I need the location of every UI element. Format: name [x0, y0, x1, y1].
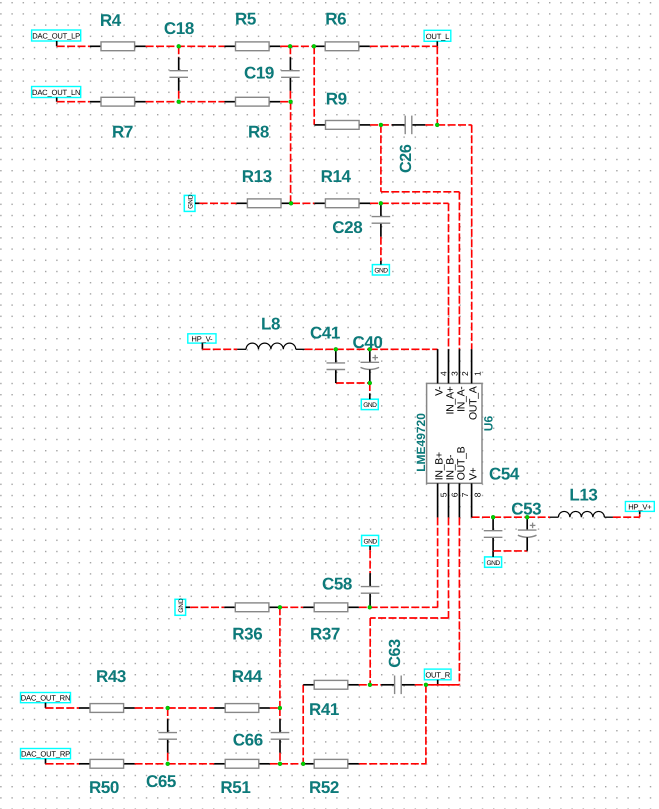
svg-text:U6: U6	[481, 416, 495, 432]
junction node C63/OUT_R	[424, 683, 428, 687]
capacitor C63	[381, 676, 415, 695]
net label OUT_R	[424, 669, 451, 680]
label R14	[321, 167, 352, 186]
svg-text:R9: R9	[326, 90, 347, 109]
svg-text:OUT_L: OUT_L	[426, 32, 449, 41]
resistor R36	[224, 603, 280, 612]
svg-text:OUT_B: OUT_B	[455, 446, 467, 480]
wire R41 to C63 node	[359, 684, 370, 686]
svg-text:LME49720: LME49720	[414, 413, 428, 472]
junction node R8/C19	[289, 100, 293, 104]
wire stub HP_V-	[201, 343, 203, 349]
wire OUT_L riser to C26	[436, 46, 438, 125]
label R52	[309, 778, 339, 797]
wire OUT_R node riser to R52	[425, 685, 427, 764]
wire C63 left stub	[370, 684, 381, 686]
wire R50 to C65 node	[135, 763, 168, 765]
wire C66 node to R52	[280, 763, 303, 765]
junction node R14/C28 (IN_A+)	[379, 201, 383, 205]
wire DAC_OUT_RN to R43	[46, 707, 80, 709]
junction node C40/HP_V- rail	[368, 347, 372, 351]
net label DAC_OUT_RN	[21, 693, 71, 703]
op-amp U6 value LME49720	[414, 413, 428, 472]
svg-text:R50: R50	[89, 778, 119, 797]
resistor R13	[236, 199, 292, 208]
wire DAC_OUT_LN to R7	[57, 101, 90, 103]
wire HP_V- to L8	[202, 348, 237, 350]
svg-text:GND: GND	[374, 268, 388, 275]
wire R9 left riser	[313, 46, 315, 125]
svg-text:R5: R5	[235, 10, 256, 29]
resistor R51	[214, 759, 270, 768]
op-amp U6 pin 2 (IN_A-)	[455, 349, 470, 412]
svg-text:L13: L13	[569, 486, 597, 505]
svg-text:8: 8	[472, 492, 482, 497]
wire stub GND C28	[380, 261, 382, 265]
wire R8 to C19 node	[280, 101, 290, 103]
resistor R9	[315, 121, 371, 130]
op-amp U6 reference	[481, 416, 495, 432]
wire C63 right stub	[415, 684, 426, 686]
wire L8 to C41 node	[305, 348, 336, 350]
label R13	[242, 167, 272, 186]
svg-text:GND: GND	[178, 598, 185, 613]
svg-text:HP_V+: HP_V+	[628, 502, 652, 511]
svg-text:C26: C26	[397, 144, 415, 173]
wire stub DAC_OUT_RP	[45, 759, 47, 764]
wire C28 lower stub	[380, 237, 382, 261]
resistor R14	[314, 199, 370, 208]
svg-text:R4: R4	[100, 11, 122, 30]
wire C54 node to C53 node	[493, 516, 527, 518]
wire R36 node to R37	[280, 606, 303, 608]
label R8	[248, 123, 269, 142]
svg-text:DAC_OUT_LN: DAC_OUT_LN	[32, 88, 80, 97]
op-amp U6 pin 5 (IN_B+)	[434, 452, 449, 517]
junction node R7/C18	[177, 100, 181, 104]
resistor R43	[79, 704, 135, 713]
wire stub DAC_OUT_LN	[56, 98, 58, 102]
junction node C26/OUT_L	[435, 123, 439, 127]
svg-text:C53: C53	[511, 500, 541, 519]
wire R7 to R8 via node C18b	[146, 101, 225, 103]
capacitor C18	[169, 57, 188, 91]
wire GND to R13	[200, 202, 237, 204]
svg-text:C41: C41	[310, 324, 340, 343]
junction node R6/R9	[312, 44, 316, 48]
wire R13 node to R14	[292, 202, 314, 204]
junction node R37/C58 (IN_B+)	[368, 605, 372, 609]
capacitor C41	[327, 349, 346, 383]
wire C18 top stub	[178, 46, 180, 57]
wire stub GND C54	[492, 551, 494, 557]
label R51	[220, 778, 250, 797]
capacitor C28	[372, 203, 391, 237]
svg-text:R41: R41	[309, 700, 339, 719]
label C65	[146, 772, 176, 791]
power label GND (C54)	[485, 557, 502, 567]
wire R43 to C65 node	[135, 707, 168, 709]
op-amp U6 pin 4 (V-)	[434, 349, 449, 396]
wire C54 to C53 ground link	[493, 550, 527, 552]
inductor L13	[550, 511, 613, 517]
junction node R41/C63 (IN_B-)	[368, 683, 372, 687]
label R37	[310, 625, 340, 644]
wire IN_A- path C26 node to U6 pin 2	[381, 125, 460, 349]
wire R8 node riser to R13/R14 node	[290, 102, 292, 204]
junction node V+/C54	[491, 515, 495, 519]
wire R44 to C66 node	[270, 707, 280, 709]
label R4	[100, 11, 122, 30]
wire C40 node to U6 pin 4	[370, 348, 438, 350]
junction node R51/C66	[278, 762, 282, 766]
net label OUT_L	[424, 30, 451, 41]
wire stub GND row R13	[195, 202, 200, 204]
wire C58 node to U6 pin 5 riser	[370, 606, 438, 608]
label C40	[353, 333, 383, 352]
junction node C54/C53	[525, 515, 529, 519]
power label GND (row R36)	[175, 598, 186, 615]
op-amp U6 pin 8 (V+)	[468, 467, 483, 517]
junction node R9/C26 (IN_A-)	[379, 123, 383, 127]
label C63	[386, 639, 404, 668]
wire C18 bottom stub	[178, 91, 180, 102]
svg-text:GND: GND	[187, 194, 194, 209]
wire OUT_A riser to U6 pin 1	[471, 125, 473, 349]
resistor R6	[314, 42, 370, 51]
net label HP_V-	[188, 334, 216, 344]
svg-text:GND: GND	[363, 402, 377, 409]
label C19	[244, 64, 274, 83]
svg-text:OUT_R: OUT_R	[425, 670, 450, 679]
wire C66 bottom stub	[279, 753, 281, 764]
svg-text:R43: R43	[96, 667, 126, 686]
capacitor C66	[271, 719, 290, 753]
wire stub GND C40	[369, 393, 371, 399]
svg-text:R51: R51	[220, 778, 250, 797]
wire L13 to HP_V+	[613, 514, 640, 517]
svg-text:DAC_OUT_RN: DAC_OUT_RN	[21, 694, 70, 703]
capacitor C58	[361, 573, 380, 607]
label C53	[511, 500, 541, 519]
resistor R44	[214, 704, 270, 713]
svg-text:C28: C28	[332, 218, 362, 237]
capacitor C65	[158, 719, 177, 753]
svg-text:OUT_A: OUT_A	[468, 386, 480, 420]
label C28	[332, 218, 362, 237]
svg-text:2: 2	[460, 371, 470, 376]
power label GND (row R13)	[184, 194, 195, 211]
svg-text:GND: GND	[364, 538, 378, 545]
svg-text:C63: C63	[386, 639, 404, 668]
junction node R52/R41	[301, 762, 305, 766]
resistor R8	[225, 97, 281, 106]
resistor R7	[90, 97, 146, 106]
op-amp U6 pin 7 (OUT_B)	[455, 446, 470, 517]
svg-text:7: 7	[460, 492, 470, 497]
svg-text:L8: L8	[261, 314, 280, 333]
svg-text:R8: R8	[248, 123, 269, 142]
label R9	[326, 90, 347, 109]
wire R41 left riser to R52 node	[302, 685, 304, 764]
wire GND to C58 top	[369, 550, 371, 573]
svg-text:R36: R36	[232, 625, 262, 644]
svg-text:C54: C54	[489, 465, 520, 484]
svg-text:R13: R13	[242, 167, 272, 186]
wire R51 to C66 node	[270, 763, 280, 765]
label R36	[232, 625, 262, 644]
resistor R52	[303, 759, 359, 768]
wire C28 node to U6 pin 3	[381, 203, 449, 349]
junction node R4/C18	[177, 44, 181, 48]
wire C41 to C40 bottom link	[336, 382, 370, 384]
wire stub GND C58	[369, 546, 371, 550]
svg-text:C18: C18	[164, 19, 194, 38]
svg-text:DAC_OUT_RP: DAC_OUT_RP	[21, 750, 70, 759]
capacitor C19	[281, 57, 300, 91]
op-amp U6 pin 3 (IN_A+)	[444, 349, 459, 414]
wire GND to R36	[190, 606, 224, 608]
label R50	[89, 778, 119, 797]
label C66	[233, 730, 263, 749]
net label DAC_OUT_LN	[32, 87, 81, 98]
label L8	[261, 314, 280, 333]
wire stub HP_V+	[639, 511, 641, 514]
capacitor C54	[484, 517, 503, 551]
resistor R4	[90, 42, 146, 51]
svg-text:V+: V+	[468, 467, 480, 480]
wire U6 pin 6 to R41/C63 node	[370, 517, 448, 684]
wire R4 to R5 via node C18	[146, 45, 225, 47]
svg-text:C65: C65	[146, 772, 176, 791]
svg-text:C19: C19	[244, 64, 274, 83]
junction node L8/C41	[334, 347, 338, 351]
wire C19 bottom stub	[289, 91, 291, 102]
svg-text:C58: C58	[322, 575, 352, 594]
svg-text:HP_V-: HP_V-	[191, 334, 213, 343]
wire stub DAC_OUT_RN	[45, 703, 47, 708]
label C58	[322, 575, 352, 594]
wire R52 to OUT_R riser	[359, 763, 426, 765]
net label DAC_OUT_RP	[21, 749, 71, 759]
wire U6 pin 8 to C54 node	[472, 516, 494, 518]
svg-text:R52: R52	[309, 778, 339, 797]
svg-text:C66: C66	[233, 730, 263, 749]
label R7	[112, 123, 133, 142]
label C41	[310, 324, 340, 343]
svg-text:4: 4	[438, 371, 448, 376]
net label HP_V+	[625, 502, 654, 512]
wire C41 node to C40 node	[336, 348, 370, 350]
label R44	[232, 667, 263, 686]
junction node R13/R14	[289, 201, 293, 205]
junction node R44/C66	[278, 706, 282, 710]
svg-text:R37: R37	[310, 625, 340, 644]
svg-text:R7: R7	[112, 123, 133, 142]
wire R9 to C26 node	[370, 124, 381, 126]
net label DAC_OUT_LP	[32, 30, 81, 41]
label R6	[325, 10, 346, 29]
wire U6 pin 5 riser to R37 node	[437, 517, 439, 607]
wire R37 to C58 node	[359, 606, 370, 608]
svg-text:R14: R14	[321, 167, 352, 186]
wire C19 top stub	[289, 46, 291, 57]
inductor L8	[237, 343, 304, 349]
svg-text:1: 1	[472, 371, 482, 376]
polarized capacitor C53	[518, 517, 537, 551]
junction node C41/C40 bottom	[368, 381, 372, 385]
wire DAC_OUT_RP to R50	[46, 763, 80, 765]
label C26	[397, 144, 415, 173]
resistor R50	[79, 759, 135, 768]
wire C40 bottom to GND stub	[369, 383, 371, 393]
op-amp U6 pin 6 (IN_B-)	[444, 454, 459, 517]
junction node R43/C65	[166, 706, 170, 710]
wire C65 node to R44	[168, 707, 215, 709]
capacitor C26	[392, 116, 426, 135]
junction node R5/C19	[288, 44, 292, 48]
op-amp U6 body (LME49720)	[427, 383, 482, 483]
wire C26 to OUT_A corner	[437, 124, 472, 126]
svg-text:GND: GND	[487, 560, 501, 567]
wire stub DAC_OUT_LP	[56, 41, 58, 46]
junction node R36/R37	[278, 605, 282, 609]
resistor R41	[303, 680, 359, 689]
svg-text:6: 6	[449, 492, 459, 497]
svg-text:R6: R6	[325, 10, 346, 29]
power label GND (C28)	[372, 265, 389, 275]
wire OUT_R node to U6 pin 7 corner	[426, 684, 460, 686]
svg-text:5: 5	[438, 492, 448, 497]
svg-text:3: 3	[449, 371, 459, 376]
power label GND (C58)	[362, 535, 379, 545]
label R43	[96, 667, 126, 686]
wire stub OUT_L	[436, 41, 438, 46]
label R41	[309, 700, 339, 719]
svg-text:DAC_OUT_LP: DAC_OUT_LP	[32, 32, 80, 41]
svg-text:R44: R44	[232, 667, 263, 686]
label L13	[569, 486, 597, 505]
resistor R37	[303, 603, 359, 612]
wire U6 pin 7 to C63/OUT_R node	[426, 517, 460, 684]
label C18	[164, 19, 194, 38]
wire C19 node to R6	[280, 45, 314, 47]
wire C26 right stub	[425, 124, 437, 126]
svg-text:IN_A-: IN_A-	[455, 386, 467, 412]
junction node R50/C65	[166, 762, 170, 766]
wire stub OUT_R	[437, 680, 439, 685]
polarized capacitor C40	[361, 349, 380, 383]
wire R36 node riser to R44/C66 node	[279, 607, 281, 708]
label R5	[235, 10, 256, 29]
op-amp U6 pin 1 (OUT_A)	[468, 349, 483, 420]
wire DAC_OUT_LP to R4	[57, 45, 90, 47]
wire C66 top stub	[279, 708, 281, 719]
wire C65 bottom stub	[167, 753, 169, 764]
wire C65 node to R51	[168, 763, 215, 765]
wire C26 left stub	[381, 124, 392, 126]
wire R6 to OUT_L corner	[370, 45, 438, 47]
resistor R5	[225, 42, 281, 51]
label C54	[489, 465, 520, 484]
power label GND (C40)	[361, 399, 378, 409]
wire C65 top stub	[167, 708, 169, 719]
wire stub GND row R36	[186, 606, 191, 608]
wire R14 to C28 node	[370, 202, 381, 204]
svg-text:C40: C40	[353, 333, 383, 352]
wire C53 node to L13	[527, 516, 550, 518]
